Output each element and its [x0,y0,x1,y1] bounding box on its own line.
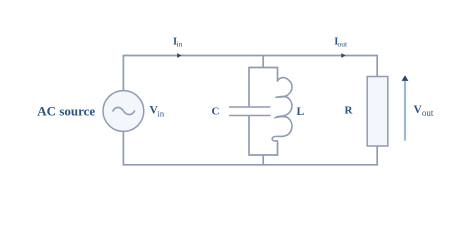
resistor R body [367,77,388,147]
svg-text:C: C [212,105,220,117]
svg-text:out: out [422,108,434,118]
svg-text:out: out [338,39,349,48]
wires [123,55,377,166]
voltage arrow Vout head [402,75,409,81]
voltage arrow Vout shaft [404,81,406,141]
inductor L coil [272,78,292,141]
wire inductor branch upper [277,67,279,81]
capacitor C bottom plate [229,115,271,117]
wire capacitor branch lower [248,116,250,156]
current arrow Iout head [341,53,345,58]
AC source sine symbol [113,107,135,114]
wire capacitor branch upper [248,67,250,107]
wire top loop: source top to resistor top [123,56,377,91]
wire LC feed bottom [262,155,264,166]
AC source V1 circle [103,91,144,132]
svg-text:AC source: AC source [37,103,95,118]
capacitor C top plate [229,106,271,108]
wire LC top bar [249,67,278,69]
svg-text:L: L [297,106,305,118]
svg-text:in: in [177,39,183,48]
wire bottom loop: source bottom to resistor bottom [123,131,377,165]
svg-text:R: R [345,105,354,117]
capacitor C plates [229,107,271,116]
wire LC bottom bar [249,154,278,156]
svg-text:in: in [158,108,165,118]
current arrow Iin head [177,53,181,58]
wire inductor branch lower [277,141,279,156]
wire LC feed top [262,55,264,68]
